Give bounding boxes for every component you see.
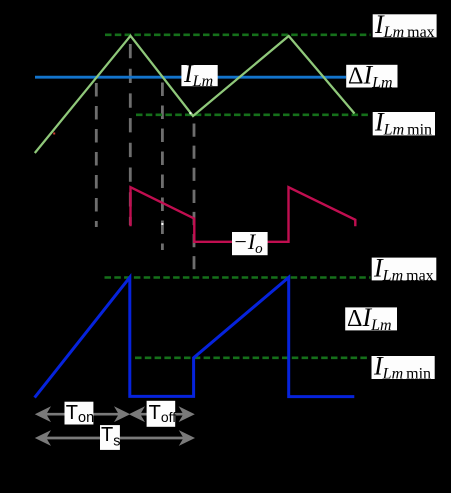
- svg-text:ILm: ILm: [183, 59, 213, 90]
